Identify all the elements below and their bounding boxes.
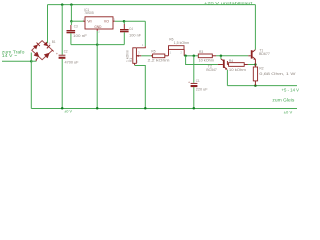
wire: output line (227, 85, 297, 87)
svg-text:2,2 kOhm: 2,2 kOhm (148, 57, 170, 62)
svg-text:+5 - 14 V: +5 - 14 V (282, 87, 300, 92)
capacitor C2 (polarized) (56, 52, 66, 59)
node: R2/output (254, 84, 257, 87)
svg-text:+: + (188, 81, 190, 85)
wire: trafo input line (2, 60, 31, 62)
wire: bridge minus link (31, 60, 36, 62)
wire: bottom 0V rail (31, 108, 297, 110)
resistor R4 (227, 61, 248, 66)
svg-text:BC547: BC547 (206, 68, 216, 72)
svg-text:78S05: 78S05 (84, 10, 94, 15)
wire: IC1 gnd drop to rail (96, 31, 98, 109)
svg-text:10 kOhm: 10 kOhm (229, 67, 246, 72)
wire: left vertical to bottom rail (30, 53, 32, 109)
svg-text:B1: B1 (52, 39, 56, 44)
svg-text:R2: R2 (259, 65, 263, 70)
node: C1 branch (193, 55, 196, 58)
diode on lower-left edge (34, 52, 41, 59)
node: VO/C4 (123, 20, 126, 23)
wire: C2 branch upper (61, 5, 63, 55)
svg-text:BD677: BD677 (259, 52, 270, 56)
svg-text:10 kOhm: 10 kOhm (199, 58, 215, 63)
svg-text:+20 V unstabilisiert: +20 V unstabilisiert (204, 0, 254, 5)
node: R6 landing (184, 55, 187, 58)
wire: pot bottom to rail (135, 66, 146, 109)
resistor R3 (198, 54, 216, 58)
svg-text:VI: VI (87, 19, 91, 23)
svg-text:100 nF: 100 nF (73, 34, 88, 38)
svg-text:C2: C2 (64, 49, 68, 54)
svg-text:zum Gleis: zum Gleis (272, 98, 294, 103)
capacitor C3 (67, 21, 76, 44)
transistor T2 (218, 56, 228, 70)
resistor R5 (151, 54, 168, 58)
svg-text:C1: C1 (196, 78, 200, 83)
node: C2/rail (61, 107, 64, 110)
wire: T2 base jog (186, 56, 218, 65)
svg-text:R1: R1 (129, 58, 133, 62)
pin stub: plus output (46, 42, 48, 44)
wire: VO down to pot (144, 21, 146, 46)
wire: C2 branch lower (61, 59, 63, 109)
pin stub: minus output (36, 58, 38, 61)
svg-text:1,5 kOhm: 1,5 kOhm (174, 41, 190, 45)
wire: IC1 input drop (70, 5, 72, 22)
diode on upper-left edge (33, 43, 40, 50)
svg-text:C4: C4 (129, 27, 133, 31)
node: trafo/bridge junction (30, 60, 33, 63)
voltage regulator IC1 (83, 17, 114, 31)
node: emitter/R4/R2 (254, 63, 257, 66)
svg-text:0,68 Ohm, 1 W: 0,68 Ohm, 1 W (259, 72, 296, 76)
node: gnd/rail (96, 107, 99, 110)
svg-text:1 kOhm: 1 kOhm (125, 50, 129, 62)
resistor R2 (253, 65, 257, 86)
pin stub: ac right (52, 50, 53, 51)
wire: R4 to emitter node (248, 64, 256, 66)
svg-text:±0 V: ±0 V (64, 109, 72, 113)
node: VI/C3 (70, 20, 73, 23)
svg-text:R5: R5 (151, 49, 155, 54)
node: rail/IC1-in (70, 3, 73, 6)
wire: T1 collector up (254, 5, 256, 50)
wire: C1 branch (193, 56, 195, 83)
wire: gnd bus (71, 44, 124, 46)
transistor T1 (248, 50, 256, 65)
wire: wiper to R5 (141, 55, 152, 57)
svg-text:220 uF: 220 uF (196, 87, 208, 92)
svg-text:R4: R4 (229, 58, 234, 63)
node: gnd bus / IC1 gnd (96, 43, 99, 46)
node: pot/rail (144, 107, 147, 110)
wire: VI line (71, 20, 84, 22)
diode on lower-right edge (44, 51, 51, 58)
capacitor C1 (polarized) (188, 81, 197, 88)
svg-text:±0 V: ±0 V (284, 110, 293, 114)
svg-text:VO: VO (104, 19, 109, 23)
wire: plus vertical to top rail (47, 5, 49, 43)
svg-text:14 V ~: 14 V ~ (2, 53, 18, 58)
svg-text:R3: R3 (199, 49, 203, 54)
diode on upper-right edge (43, 42, 50, 49)
wire: VO line (115, 20, 146, 22)
svg-text:+: + (49, 42, 51, 46)
node: rail/C2 (61, 3, 64, 6)
svg-text:+: + (56, 52, 58, 56)
svg-text:4700 uF: 4700 uF (65, 59, 80, 64)
wire: C1 to rail (193, 87, 195, 108)
capacitor C4 (120, 21, 129, 44)
svg-text:GND: GND (94, 25, 101, 29)
node: T2 collector (220, 55, 223, 58)
resistor R6 (raised) (169, 46, 185, 56)
wire: T2 emitter to output line (226, 70, 228, 86)
potentiometer R1 (125, 46, 145, 65)
wire: top +20V rail (48, 4, 256, 6)
bridge rectifier B1 (32, 41, 54, 61)
svg-text:100 nF: 100 nF (129, 34, 142, 38)
node: C1/rail (193, 107, 196, 110)
wire: main line after R6 (184, 55, 198, 57)
wire: main line to T1 base (216, 55, 248, 57)
svg-text:C3: C3 (74, 25, 78, 29)
